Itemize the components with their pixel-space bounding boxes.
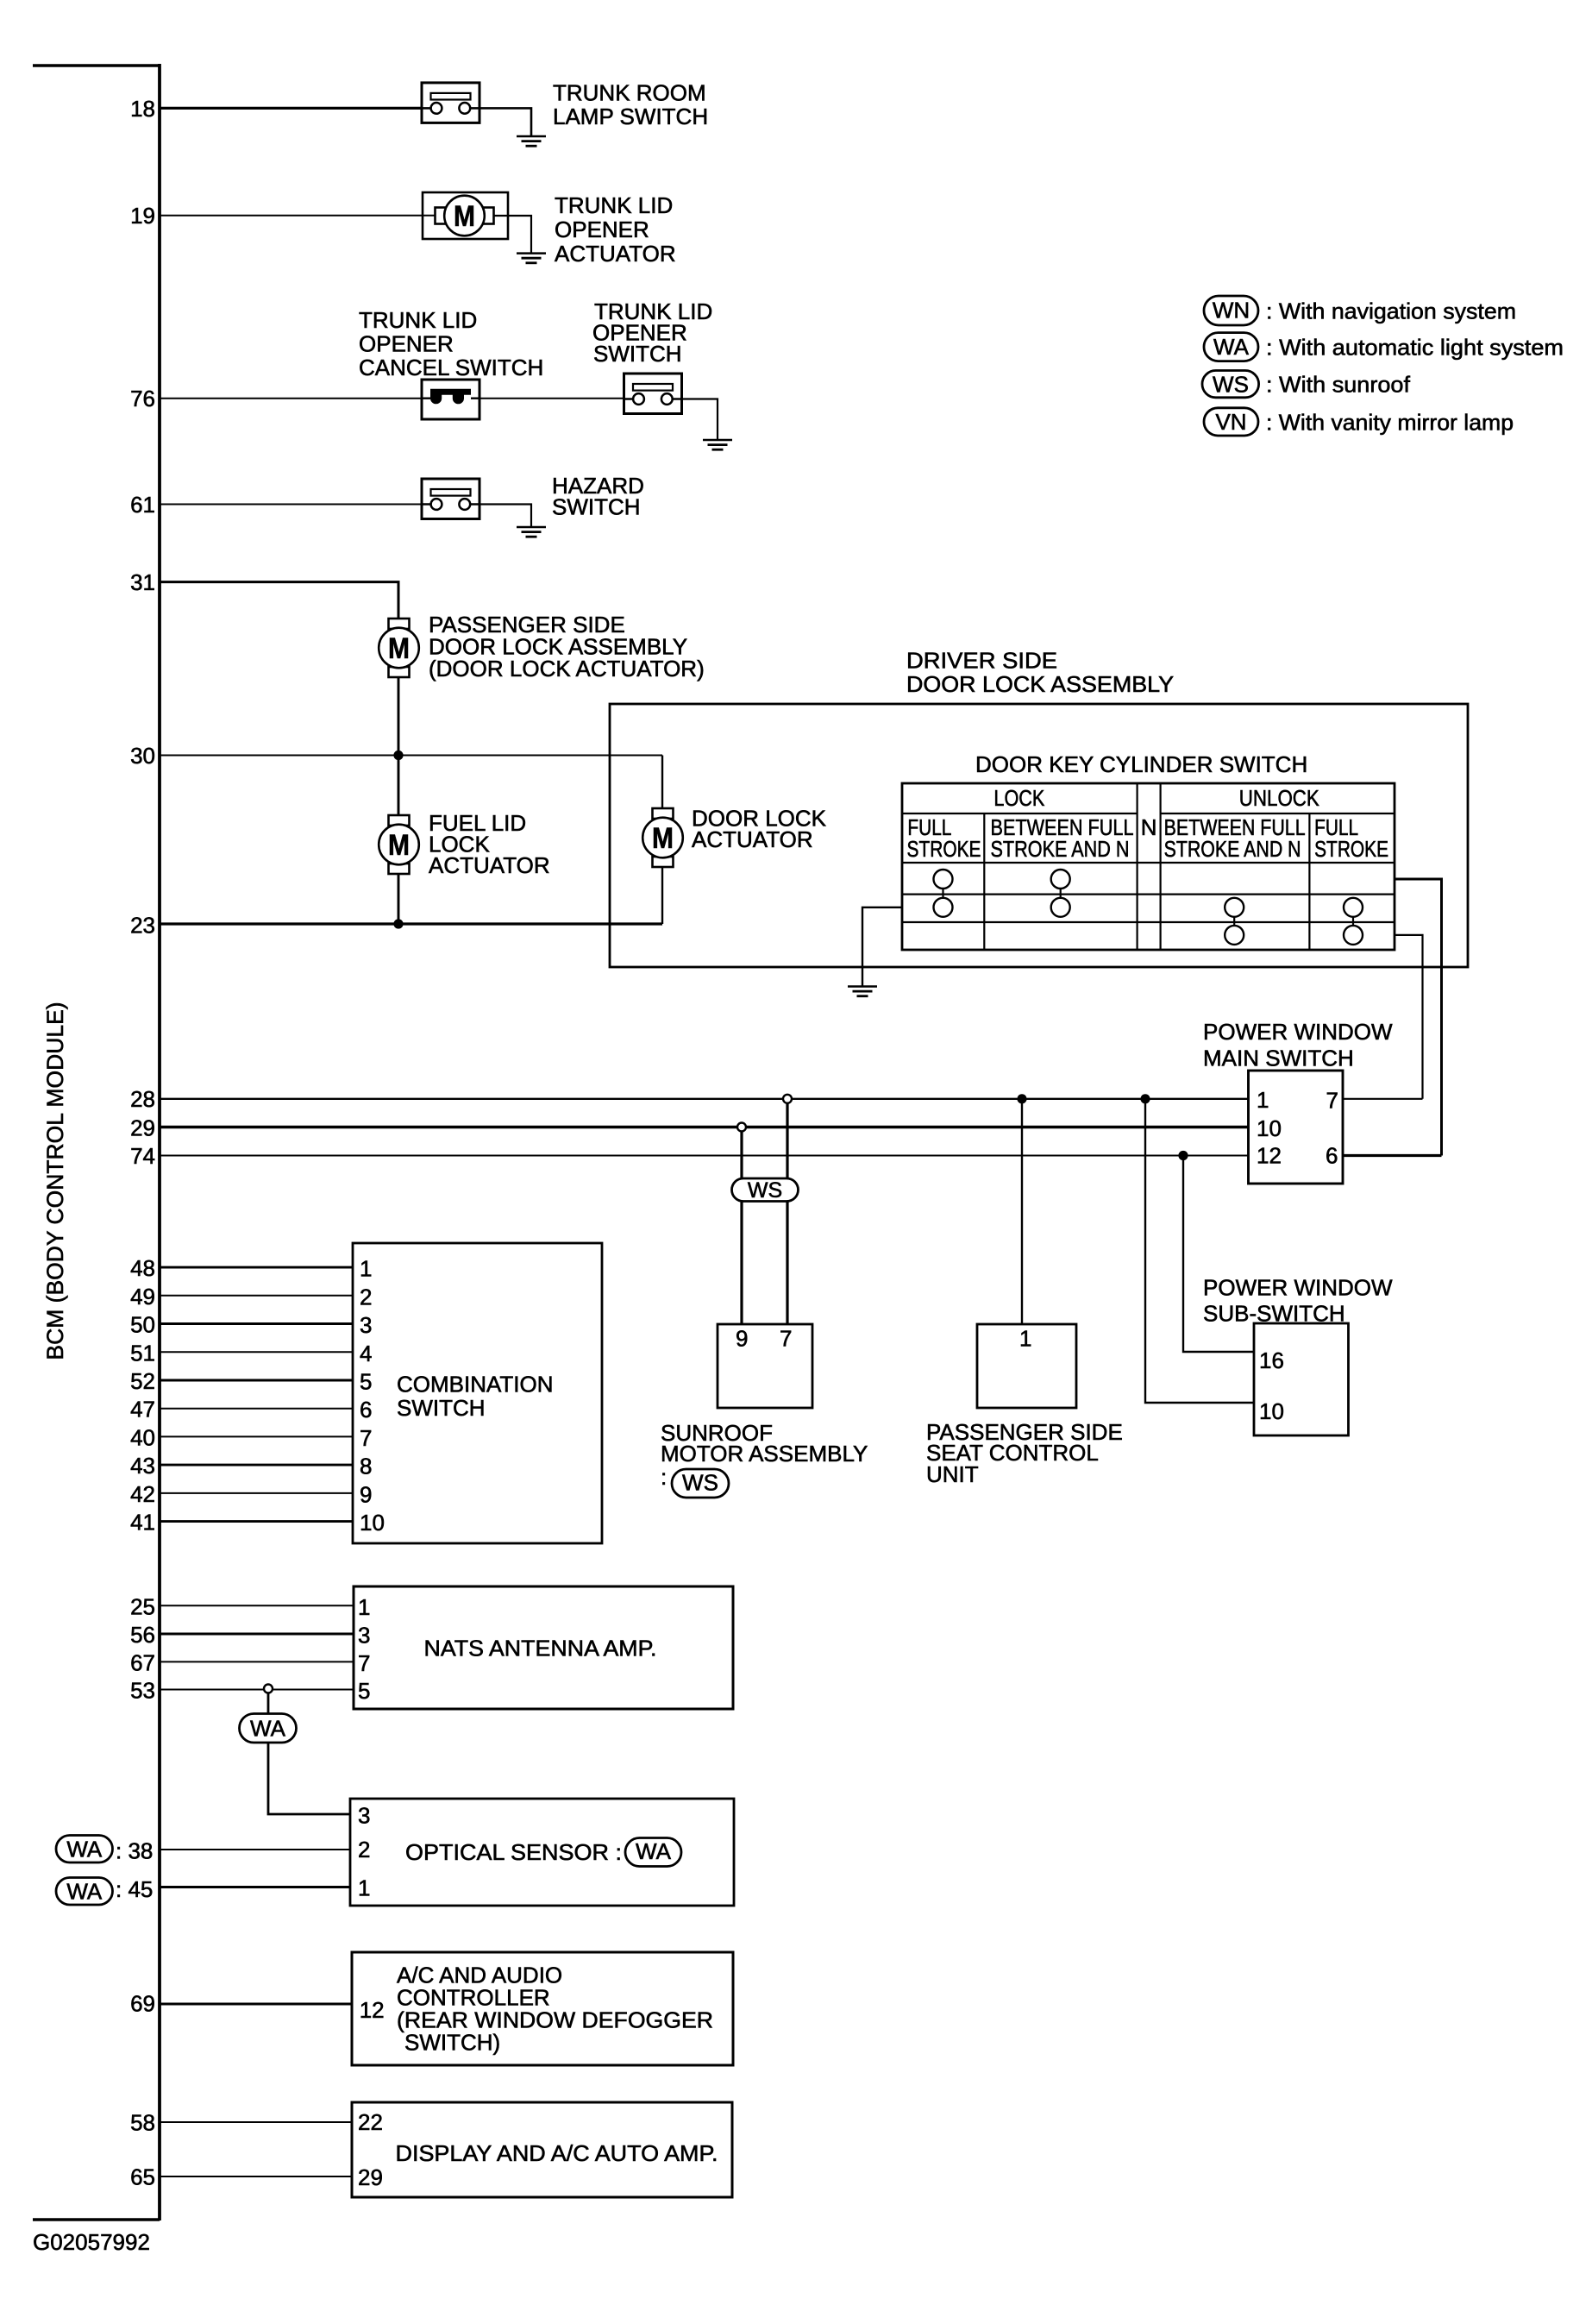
svg-text:29: 29 [130, 1115, 155, 1141]
svg-text:10: 10 [1259, 1398, 1284, 1424]
wire 48 [160, 1266, 353, 1269]
svg-text:STROKE AND N: STROKE AND N [991, 836, 1130, 862]
table row line 2 [902, 921, 1395, 923]
contact circle col4 row2 [1225, 898, 1244, 917]
svg-text:SWITCH: SWITCH [397, 1395, 486, 1421]
svg-text:WA: WA [636, 1838, 672, 1864]
ground (trunk lid opener actuator) [517, 254, 546, 263]
svg-text:: With sunroof: : With sunroof [1266, 372, 1411, 398]
svg-text:67: 67 [130, 1649, 155, 1675]
svg-text:29: 29 [358, 2164, 383, 2190]
svg-text:OPENER: OPENER [555, 217, 649, 242]
svg-text:LAMP SWITCH: LAMP SWITCH [553, 104, 708, 129]
door key cylinder switch table frame [902, 783, 1395, 950]
svg-text:18: 18 [130, 96, 155, 122]
node junction subswitch16 branch [1178, 1151, 1188, 1160]
wire 23 [160, 922, 662, 925]
wire 29 [160, 1126, 1249, 1129]
legend WA oval [1204, 333, 1258, 361]
svg-text:43: 43 [130, 1453, 155, 1479]
svg-text:51: 51 [130, 1340, 155, 1366]
svg-text:WA: WA [66, 1879, 103, 1905]
svg-text:9: 9 [736, 1326, 748, 1352]
table column line 2 [1136, 783, 1138, 950]
svg-text:NATS ANTENNA AMP.: NATS ANTENNA AMP. [424, 1636, 657, 1661]
node junction wire30 [393, 751, 403, 760]
branch wire 28 to seat control unit [1021, 1099, 1023, 1324]
svg-text:STROKE: STROKE [907, 836, 981, 862]
svg-text:OPTICAL SENSOR :: OPTICAL SENSOR : [405, 1839, 622, 1865]
svg-text:: 38: : 38 [116, 1837, 153, 1863]
svg-text:ACTUATOR: ACTUATOR [555, 241, 676, 267]
wire 61 [160, 504, 422, 506]
wire 74 [160, 1155, 1249, 1157]
svg-text:2: 2 [360, 1284, 372, 1310]
svg-text:UNIT: UNIT [926, 1461, 979, 1487]
svg-text:1: 1 [1257, 1087, 1269, 1113]
svg-text:POWER WINDOW: POWER WINDOW [1203, 1019, 1393, 1045]
svg-text:BCM (BODY CONTROL MODULE): BCM (BODY CONTROL MODULE) [42, 1002, 68, 1360]
svg-text:10: 10 [360, 1510, 385, 1536]
svg-text:30: 30 [130, 743, 155, 769]
wire 18 [160, 107, 422, 110]
branch wire 29 to sunroof pin9 [740, 1127, 743, 1325]
wire 25 [160, 1605, 354, 1606]
contact circle col2 row1 [1051, 870, 1070, 889]
wire 76 [160, 398, 422, 399]
wire 38 [160, 1849, 350, 1850]
wire 56 [160, 1633, 354, 1636]
motor M passenger side door lock actuator [379, 619, 419, 677]
wire 52 [160, 1379, 353, 1382]
svg-text:47: 47 [130, 1397, 155, 1423]
svg-text:VN: VN [1215, 409, 1246, 435]
wire 58 [160, 2121, 352, 2123]
svg-text:N: N [1141, 814, 1157, 840]
table row3 wire to pin7 [1395, 935, 1423, 1099]
wire 67 [160, 1661, 354, 1662]
table column line 3 [1159, 783, 1161, 950]
svg-text:28: 28 [130, 1086, 155, 1112]
ground (trunk room lamp switch) [517, 136, 546, 146]
svg-text:TRUNK ROOM: TRUNK ROOM [553, 80, 706, 106]
WA option oval (branch) [240, 1714, 297, 1743]
branch wire 28 to sunroof pin7 [786, 1099, 788, 1324]
svg-text:WS: WS [748, 1178, 782, 1203]
wire pin6 PW main [1343, 1154, 1442, 1157]
svg-text:3: 3 [360, 1312, 372, 1338]
svg-text:CANCEL SWITCH: CANCEL SWITCH [359, 355, 543, 380]
wire 45 [160, 1886, 350, 1888]
table column line 4 [1308, 813, 1310, 950]
svg-text:52: 52 [130, 1368, 155, 1394]
svg-text:58: 58 [130, 2110, 155, 2136]
wire 53 [160, 1689, 354, 1691]
legend VN oval [1204, 408, 1258, 436]
BCM module rail [158, 64, 161, 2220]
connector circle on wire 53 [264, 1685, 273, 1693]
BCM top stub wire [33, 64, 160, 67]
contact circle col1 row1 [934, 870, 953, 889]
optical sensor box [350, 1799, 734, 1906]
svg-text:49: 49 [130, 1284, 155, 1310]
svg-text:7: 7 [360, 1425, 372, 1451]
motor M door lock actuator (driver) [642, 808, 683, 867]
display and A/C auto amp box [352, 2102, 732, 2197]
svg-text:19: 19 [130, 203, 155, 229]
svg-text:6: 6 [1326, 1143, 1338, 1169]
svg-text:M: M [454, 200, 475, 233]
wire door lock actuator to wire 23 [661, 867, 663, 925]
WS option oval [732, 1178, 799, 1202]
wire 69 [160, 2003, 352, 2006]
svg-text:(DOOR LOCK ACTUATOR): (DOOR LOCK ACTUATOR) [429, 656, 705, 681]
BCM bottom stub wire [33, 2218, 160, 2221]
svg-text:MOTOR ASSEMBLY: MOTOR ASSEMBLY [661, 1441, 868, 1467]
svg-text:61: 61 [130, 492, 155, 518]
contact link col4 [1233, 908, 1235, 935]
svg-text:69: 69 [130, 1991, 155, 2017]
svg-text:TRUNK LID: TRUNK LID [555, 192, 673, 218]
motor M trunk lid opener actuator [436, 196, 494, 236]
svg-text:1: 1 [358, 1875, 370, 1901]
contact circle col5 row2 [1344, 898, 1363, 917]
svg-text:50: 50 [130, 1312, 155, 1338]
svg-text:M: M [388, 632, 410, 665]
driver side door lock assembly box [610, 704, 1468, 967]
svg-text:8: 8 [360, 1454, 372, 1479]
svg-text:SWITCH: SWITCH [552, 493, 641, 519]
contact circle col5 row3 [1344, 926, 1363, 945]
svg-text:WA: WA [1213, 334, 1250, 360]
trunk lid opener cancel switch [422, 380, 479, 419]
table header divider LOCK [902, 813, 1138, 814]
wire 41 [160, 1520, 353, 1523]
legend WN oval [1204, 296, 1258, 325]
trunk lid opener actuator box [423, 192, 508, 239]
svg-text:STROKE AND N: STROKE AND N [1164, 836, 1301, 862]
wire hazard switch to ground [479, 505, 531, 528]
wire 65 [160, 2176, 352, 2177]
wire 30 [160, 755, 662, 757]
ground (door key cylinder switch) [848, 987, 877, 996]
svg-text::: : [661, 1464, 667, 1490]
branch wire 53 to optical sensor pin3 [268, 1693, 350, 1814]
WA oval (pin45) [56, 1878, 113, 1906]
wire 47 [160, 1408, 353, 1410]
svg-text:ACTUATOR: ACTUATOR [429, 852, 550, 878]
connector circle on wire 29 [737, 1123, 746, 1132]
wire 28 [160, 1098, 1249, 1100]
A/C and audio controller box [352, 1952, 733, 2065]
svg-text:2: 2 [358, 1837, 370, 1862]
svg-text:1: 1 [1019, 1326, 1031, 1352]
svg-text:12: 12 [360, 1997, 385, 2023]
hazard switch [422, 479, 479, 519]
sunroof motor assembly box [718, 1324, 812, 1408]
svg-text:LOCK: LOCK [993, 785, 1045, 811]
node junction subswitch10 branch [1140, 1094, 1150, 1103]
svg-text:POWER WINDOW: POWER WINDOW [1203, 1275, 1393, 1301]
wire 43 [160, 1464, 353, 1467]
svg-text:6: 6 [360, 1397, 372, 1423]
svg-text:TRUNK LID: TRUNK LID [359, 307, 477, 333]
ground (trunk lid opener switch) [703, 440, 732, 449]
wire 40 [160, 1435, 353, 1437]
svg-text:7: 7 [358, 1650, 370, 1676]
legend WS oval [1202, 371, 1259, 398]
svg-text:COMBINATION: COMBINATION [397, 1372, 554, 1398]
branch wire 74 to sub-switch pin16 [1183, 1156, 1254, 1353]
wire 76 to opener switch [479, 398, 624, 399]
svg-text:65: 65 [130, 2164, 155, 2190]
svg-text:UNLOCK: UNLOCK [1239, 785, 1320, 811]
table ground wire [862, 908, 902, 987]
svg-text:74: 74 [130, 1143, 155, 1169]
svg-text:76: 76 [130, 386, 155, 411]
svg-text:9: 9 [360, 1481, 372, 1507]
wire 51 [160, 1351, 353, 1353]
wire between door lock and fuel lid actuator [398, 677, 400, 816]
WS option oval (sunroof label) [672, 1469, 729, 1498]
table header divider UNLOCK [1161, 813, 1395, 814]
svg-text:7: 7 [1326, 1087, 1338, 1113]
svg-text:16: 16 [1259, 1347, 1284, 1373]
svg-text:42: 42 [130, 1481, 155, 1507]
wire fuel lid actuator to wire23 [398, 874, 400, 925]
wire 31 [160, 582, 398, 619]
contact circle col2 row2 [1051, 898, 1070, 917]
svg-text:4: 4 [360, 1341, 372, 1366]
svg-text:WA: WA [250, 1716, 286, 1742]
svg-text:1: 1 [360, 1256, 372, 1282]
svg-text:G02057992: G02057992 [33, 2229, 150, 2255]
svg-text:: With vanity mirror lamp: : With vanity mirror lamp [1266, 409, 1514, 435]
svg-text:SWITCH: SWITCH [593, 341, 682, 367]
power window sub-switch box [1254, 1323, 1349, 1435]
combination switch box [353, 1243, 602, 1543]
svg-text:SWITCH): SWITCH) [404, 2030, 500, 2056]
wire 19 [160, 215, 435, 217]
contact link col1 [942, 879, 943, 908]
contact link col5 [1352, 908, 1354, 935]
svg-text:ACTUATOR: ACTUATOR [692, 826, 813, 852]
branch wire 28 to sub-switch pin10 [1145, 1099, 1254, 1403]
contact link col2 [1060, 879, 1062, 908]
svg-text:31: 31 [130, 569, 155, 595]
svg-text:DOOR LOCK ASSEMBLY: DOOR LOCK ASSEMBLY [906, 671, 1174, 697]
node junction seat branch [1017, 1094, 1026, 1103]
svg-text:22: 22 [358, 2109, 383, 2135]
NATS antenna amp box [354, 1586, 733, 1709]
svg-text:WS: WS [682, 1470, 718, 1496]
svg-text:56: 56 [130, 1622, 155, 1648]
svg-text:DRIVER SIDE: DRIVER SIDE [906, 648, 1057, 674]
svg-text:WA: WA [66, 1837, 103, 1862]
svg-text:12: 12 [1257, 1143, 1282, 1169]
svg-text:5: 5 [358, 1678, 370, 1704]
svg-text:DOOR KEY CYLINDER SWITCH: DOOR KEY CYLINDER SWITCH [975, 751, 1307, 777]
passenger side seat control unit box [977, 1324, 1076, 1408]
wire opener switch to ground [682, 399, 718, 441]
svg-text:23: 23 [130, 913, 155, 939]
svg-text:1: 1 [358, 1594, 370, 1620]
WA option oval (optical label) [625, 1838, 681, 1867]
svg-text:41: 41 [130, 1510, 155, 1536]
svg-text:DISPLAY AND A/C AUTO AMP.: DISPLAY AND A/C AUTO AMP. [396, 2140, 718, 2166]
svg-text:OPENER: OPENER [359, 331, 454, 357]
svg-text:MAIN SWITCH: MAIN SWITCH [1203, 1045, 1354, 1071]
svg-text:53: 53 [130, 1678, 155, 1704]
WA oval (pin38) [56, 1836, 113, 1863]
wire 30 drop to door lock actuator [661, 756, 663, 809]
svg-text:7: 7 [780, 1326, 792, 1352]
node junction wire23 [393, 919, 403, 928]
svg-text:3: 3 [358, 1803, 370, 1829]
svg-text:48: 48 [130, 1255, 155, 1281]
ground (hazard switch) [517, 527, 546, 537]
table row line 1 [902, 893, 1395, 895]
svg-text:: With navigation system: : With navigation system [1266, 298, 1516, 324]
wire 50 [160, 1322, 353, 1325]
wire pin7 PW main [1343, 1098, 1423, 1100]
svg-text:40: 40 [130, 1424, 155, 1450]
power window main switch box [1249, 1071, 1344, 1184]
svg-text:: 45: : 45 [116, 1876, 153, 1902]
wire 42 [160, 1492, 353, 1494]
svg-text:: With automatic light system: : With automatic light system [1266, 335, 1564, 361]
contact circle col1 row2 [934, 898, 953, 917]
connector circle on wire 28 [783, 1095, 792, 1103]
svg-text:25: 25 [130, 1593, 155, 1619]
svg-text:5: 5 [360, 1369, 372, 1395]
svg-text:STROKE: STROKE [1314, 836, 1388, 862]
svg-text:3: 3 [358, 1623, 370, 1649]
wire 49 [160, 1295, 353, 1297]
svg-text:WS: WS [1213, 372, 1249, 398]
svg-text:M: M [652, 822, 674, 855]
table column line 1 [983, 813, 985, 950]
wire from actuator to ground [493, 216, 531, 254]
table header bottom line [902, 862, 1395, 864]
contact circle col4 row3 [1225, 926, 1244, 945]
trunk lid opener switch [624, 374, 682, 414]
svg-text:10: 10 [1257, 1115, 1282, 1141]
wire from lamp switch to ground [479, 108, 531, 136]
trunk room lamp switch [422, 83, 479, 122]
svg-text:WN: WN [1213, 298, 1250, 323]
table row1 wire to pin6 [1395, 879, 1442, 1156]
svg-text:M: M [388, 829, 410, 862]
motor M fuel lid lock actuator [379, 815, 419, 874]
